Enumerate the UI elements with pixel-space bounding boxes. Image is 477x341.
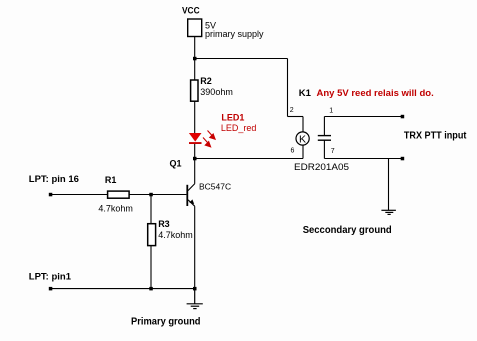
wire collector node to transistor collector [194, 159, 196, 184]
svg-text:Primary ground: Primary ground [131, 316, 201, 327]
svg-text:LPT: pin1: LPT: pin1 [29, 271, 72, 282]
resistor R2 [194, 59, 196, 81]
svg-text:2: 2 [290, 107, 294, 114]
junction collector node [193, 157, 197, 161]
svg-text:LPT: pin 16: LPT: pin 16 [29, 174, 79, 185]
wire secondary ground drop [388, 159, 390, 211]
junction emitter/ground [193, 287, 197, 291]
svg-text:BC547C: BC547C [199, 181, 231, 191]
wire jog to coil pin 2 [288, 116, 304, 118]
wire coil pin 6 to collector node (horizontal) [195, 158, 303, 160]
svg-text:6: 6 [291, 148, 295, 155]
node TRX PTT input top terminal [401, 115, 405, 119]
svg-text:4.7kohm: 4.7kohm [158, 230, 193, 240]
svg-text:Q1: Q1 [170, 159, 182, 169]
LED light arrow 1 [208, 131, 216, 140]
svg-text:Any 5V reed relais will do.: Any 5V reed relais will do. [317, 88, 434, 99]
ground secondary [381, 210, 396, 214]
svg-text:K: K [299, 134, 306, 146]
svg-text:R3: R3 [158, 219, 170, 229]
wire contact pin 7 down [323, 140, 325, 158]
transistor Q1 emitter arrow [189, 199, 194, 204]
wire coil bottom to pin 6 [302, 145, 304, 158]
wire primary ground net [51, 288, 195, 290]
svg-text:1: 1 [329, 107, 333, 114]
wire pin 7 to TRX PTT lower terminal [324, 158, 402, 160]
svg-text:EDR201A05: EDR201A05 [294, 162, 349, 173]
junction R3/ground [149, 287, 153, 291]
LED LED1 anode triangle [189, 133, 202, 142]
relay contact reed switch plate bottom (pin 7) [318, 139, 331, 141]
node LPT: pin1 terminal [49, 287, 53, 291]
junction base/R3 node [149, 193, 153, 197]
node TRX PTT input bottom terminal [401, 157, 405, 161]
svg-text:LED1: LED1 [221, 113, 244, 123]
ground primary [187, 289, 203, 309]
power symbol VCC (5V primary supply) [188, 19, 202, 37]
wire pin 1 to TRX PTT terminal [324, 116, 402, 118]
svg-text:TRX PTT input: TRX PTT input [404, 131, 467, 142]
transistor Q1 collector lead [188, 184, 195, 191]
svg-text:VCC: VCC [182, 6, 200, 17]
wire relay branch vertical [287, 59, 289, 117]
resistor R1 [108, 191, 130, 198]
junction VCC node [193, 57, 197, 61]
svg-text:primary supply: primary supply [205, 29, 264, 39]
svg-text:LED_red: LED_red [221, 123, 257, 133]
relay contact reed switch plate top (pin 1) [318, 135, 331, 137]
resistor R3 [150, 195, 152, 224]
relay K1 coil [296, 132, 309, 145]
LED light arrow 2 [203, 138, 211, 147]
svg-text:K1: K1 [299, 88, 312, 99]
wire emitter to ground net [194, 206, 196, 288]
svg-text:7: 7 [331, 148, 335, 155]
wire LED to collector node [194, 144, 196, 159]
svg-text:4.7kohm: 4.7kohm [98, 203, 133, 213]
wire VCC node to relay branch (horizontal) [195, 58, 288, 60]
transistor Q1 base bar [186, 185, 188, 206]
wire base net [51, 194, 187, 196]
svg-text:Seccondary ground: Seccondary ground [303, 225, 392, 236]
wire R2 to LED [194, 101, 196, 133]
svg-text:390ohm: 390ohm [200, 87, 233, 97]
node LPT: pin 16 terminal [49, 193, 53, 197]
svg-text:R2: R2 [200, 76, 212, 86]
svg-text:R1: R1 [105, 175, 117, 185]
wire R3 to ground net [150, 246, 152, 289]
wire coil pin 2 down to coil [302, 117, 304, 133]
LED LED1 cathode bar [189, 142, 202, 144]
wire VCC square to junction [194, 37, 196, 59]
wire contact pin 1 up [323, 117, 325, 136]
transistor Q1 emitter lead [188, 200, 195, 206]
